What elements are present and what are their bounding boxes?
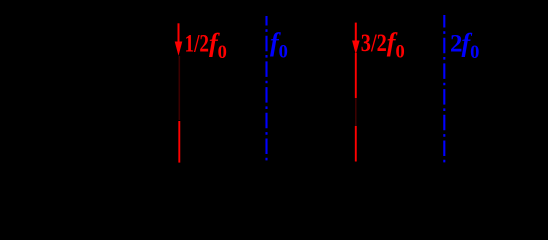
- red line segment at 3/2 f0 (upper bright part): [355, 53, 357, 98]
- red line segment at 3/2 f0 (lower bright part): [355, 126, 357, 162]
- svg-text:2f0: 2f0: [450, 28, 479, 63]
- red down-arrow at 3/2 f0: [352, 23, 360, 55]
- red line segment at 1/2 f0 (lower bright part): [178, 121, 180, 163]
- red down-arrow at 1/2 f0: [175, 23, 183, 55]
- svg-text:3/2f0: 3/2f0: [361, 28, 405, 63]
- blue dash-dot line at f0: [265, 16, 267, 163]
- faint hidden red line under 1/2 f0 (covered region): [178, 56, 180, 120]
- faint hidden red line under 3/2 f0 (covered region): [355, 98, 357, 126]
- svg-text:1/2f0: 1/2f0: [185, 28, 227, 63]
- svg-text:f0: f0: [270, 28, 288, 63]
- blue dash-dot line at 2 f0: [443, 15, 445, 163]
